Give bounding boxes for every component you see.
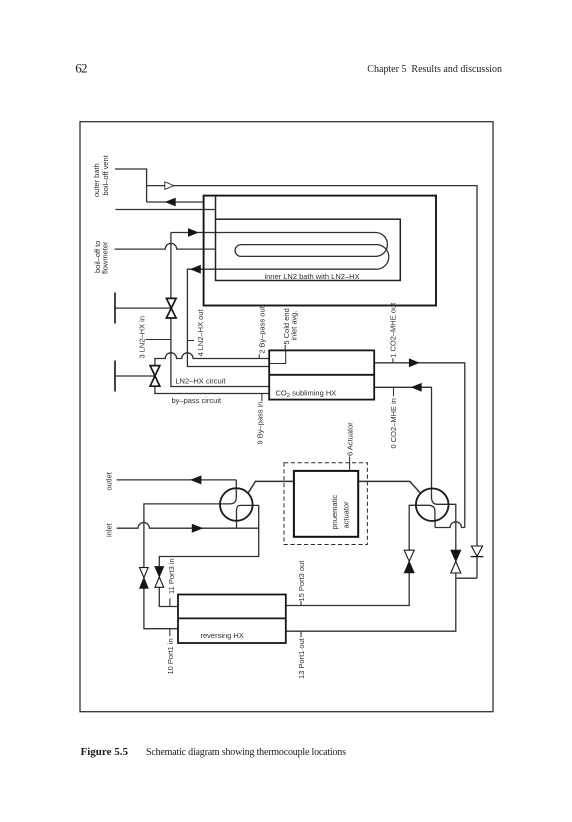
wire: CO2-MHE in from rotary valve top riser [374,387,431,488]
tick: label 11 [169,598,171,606]
svg-text:13 Port1 out: 13 Port1 out [297,637,306,679]
svg-text:Chapter 5 Results and discuss: Chapter 5 Results and discussion [367,64,502,75]
wire: junction to vent valve leg [456,557,477,578]
wire: right circle right port down through check valve to port1 out [286,504,456,631]
bath: outer LN2 bath vessel [204,196,436,306]
arrow: CO2-MHE in left [411,383,422,392]
tick: label 15 [300,601,302,606]
svg-text:62: 62 [75,60,87,75]
tick: label 3 leader [146,339,171,341]
arrow: out of bath tube left [190,265,201,274]
CO2 subliming HX box [269,350,374,399]
arrow: CO2-MHE out right [409,358,420,367]
svg-text:inlet avg.: inlet avg. [289,310,298,340]
wire: hairpin tube into inner bath with 180 deg bend [171,233,389,367]
tick: label 6 leader [349,457,351,471]
reversing HX box [178,595,286,644]
wire: vent line to right side, long run [147,186,477,547]
wire: T-bar supply 2 horizontal [115,375,155,377]
svg-text:flowmeter: flowmeter [101,241,110,274]
svg-text:3 LN2–HX in: 3 LN2–HX in [137,316,146,359]
wire: outer bath boil-off out of bath [147,201,204,203]
rotary valve circle right [416,488,449,521]
wire: inlet line with hop over circuit drop [117,523,259,529]
check valve: left pair 1 open-down over filled-up [140,568,149,578]
svg-text:actuator: actuator [341,501,350,529]
tick: label 10 [169,629,171,637]
check valve: right pair 1 open-down over filled-up [404,550,414,561]
wire: outlet line from left circle top [117,479,237,481]
wire: valve2 bottom by-pass in line into CO2 HX [155,386,269,393]
svg-text:inner LN2 bath with LN2–HX: inner LN2 bath with LN2–HX [264,272,359,281]
wire: right circle interior top-to-right [432,488,449,504]
vent relief valve: open triangle with seat bar at tip [471,556,484,558]
tick: label 9 [261,394,263,402]
svg-text:6 Actuator: 6 Actuator [345,422,354,456]
svg-text:pnuematic: pnuematic [330,495,339,530]
valve V2: by-pass hourglass [150,366,160,387]
sensor: 5 cold end internal L mark [269,350,286,363]
node: outer-bath vent stack (wire from label to junction) [115,169,147,202]
pneumatic actuator solid box [294,471,358,537]
svg-text:0 CO2–MHE in: 0 CO2–MHE in [389,398,398,448]
wire: LN2 supply riser valve1 upper [170,233,172,299]
svg-text:inlet: inlet [104,522,113,537]
arrow: outer bath boil-off left [165,198,176,207]
svg-text:10 Port1 in: 10 Port1 in [166,638,175,674]
svg-text:15 Port3 out: 15 Port3 out [297,560,306,602]
svg-text:2 By–pass out: 2 By–pass out [257,305,266,353]
wire: drive shaft actuator to right circle [358,481,421,493]
svg-text:boil–off vent: boil–off vent [101,154,110,195]
tick: label 1 [392,358,394,363]
supply T-bar 2 [114,361,116,392]
svg-text:outlet: outlet [104,471,113,490]
wire: below left check valve 2 to reversing HX port3 in [159,587,178,606]
wire: left circle interior top-to-left and drop to check valve, then to Port1 in [144,480,236,568]
wire: valve2 top to by-pass-out line with two hops into CO2 HX [155,353,269,366]
figure border frame [80,122,493,712]
wire: right circle interior left-to-bottom jog [416,505,435,521]
wire: CO2-MHE out to right and down to hop joining rotary valve bottom [374,363,465,528]
wire: below left check valve 1 to reversing HX port1 in [144,588,178,628]
wire: drive shaft left circle to actuator [248,481,294,493]
arrow: open vent arrow right [165,182,174,190]
arrow: into bath tube right [188,228,199,237]
svg-text:reversing HX: reversing HX [201,631,244,640]
svg-text:Figure 5.5: Figure 5.5 [81,746,129,758]
tick: label 0 [393,387,395,396]
arrow: inlet right [192,524,204,533]
bath: inner LN2 bath with chimney wall [216,196,401,281]
wire: hop line from rotary valve bottom to MHE-out riser [435,521,465,528]
wire: T-bar supply 1 horizontal [115,307,171,309]
svg-text:11 Port3 in: 11 Port3 in [167,558,176,594]
tick: label 13 [300,631,302,637]
tick: label 4 leader [187,340,194,342]
svg-text:9 By–pass in: 9 By–pass in [256,402,265,445]
valve V1: LN2-HX in hourglass [166,298,176,318]
svg-text:by–pass circuit: by–pass circuit [172,396,223,405]
pneumatic actuator dashed enclosure [284,463,367,545]
check valve: left pair 2 filled-down over open-up [155,567,164,578]
wire: port3 out from reversing HX up through check valve to right circle left port [286,505,416,605]
wire: boil-off to flowmeter (with hop over valve line) [115,243,216,249]
svg-text:4 LN2–HX out: 4 LN2–HX out [196,308,205,356]
supply T-bar 1 [114,293,116,324]
wire: second outer-bath line [115,209,215,211]
tick: label 5 cold end [284,345,286,351]
wire: valve1 lower riser down to LN2-HX circuit return into CO2 HX [171,318,269,387]
rotary valve circle left [220,488,253,521]
wire: left circle hook and right port down-around to Port3 in check valve [159,505,258,566]
check valve: right pair 2 filled-down over open-up [451,550,461,561]
svg-text:Schematic diagram showing ther: Schematic diagram showing thermocouple l… [146,747,346,758]
tick: label 2 [258,354,260,358]
svg-text:LN2–HX circuit: LN2–HX circuit [175,377,226,386]
svg-text:1 CO2–MHE out: 1 CO2–MHE out [389,302,398,358]
arrow: outlet left [190,475,201,484]
